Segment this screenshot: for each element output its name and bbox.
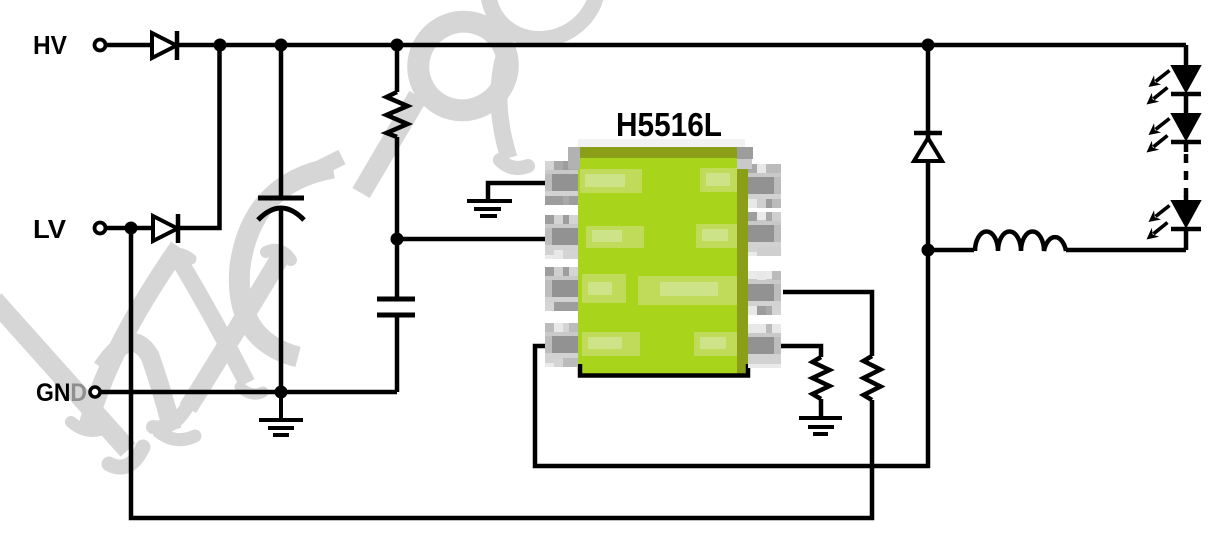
wire GND row	[100, 390, 397, 395]
IC pin 3	[545, 267, 578, 311]
diode D2	[153, 214, 178, 243]
svg-text:H5516L: H5516L	[616, 106, 722, 143]
wire top bus	[106, 43, 1186, 48]
IC pin 4	[545, 323, 578, 367]
terminal HV	[95, 40, 106, 51]
diode D3	[914, 133, 942, 161]
wire D3 branch	[926, 45, 931, 250]
svg-text:GND: GND	[36, 379, 87, 407]
IC pin 7	[748, 212, 781, 256]
LED arrows D4	[1147, 71, 1170, 105]
IC inner pin label blurs	[580, 168, 737, 356]
IC pin 8	[748, 164, 781, 208]
wire LED string	[1184, 45, 1189, 250]
dashed wire	[1184, 154, 1189, 198]
LED D4	[1171, 66, 1201, 94]
node top-3	[391, 39, 404, 52]
ground (pin1)	[467, 201, 512, 216]
inductor L1	[975, 232, 1066, 252]
IC U1 body	[578, 147, 748, 376]
terminal GND	[90, 387, 100, 397]
wire LV down and bottom bus	[131, 228, 872, 518]
wire pin5 to R2	[781, 346, 821, 357]
resistor R2	[813, 357, 830, 399]
LED arrows D5	[1147, 119, 1170, 153]
wire C1 branch	[279, 45, 284, 392]
node GND	[275, 386, 288, 399]
svg-text:HV: HV	[33, 30, 68, 60]
wire pin6 to R3	[783, 292, 872, 356]
IC pin 2	[545, 215, 578, 259]
wire pin4 loop	[535, 250, 928, 466]
wire inductor row	[928, 248, 1186, 253]
IC pin 6	[748, 271, 781, 315]
node LV	[125, 222, 138, 235]
wire LV row	[106, 45, 220, 228]
IC pin 5	[748, 324, 781, 368]
node top-2	[275, 39, 288, 52]
terminal LV	[95, 223, 106, 234]
LED D6	[1171, 201, 1201, 229]
IC corner mosaic tiles	[568, 139, 753, 169]
node top-4	[922, 39, 935, 52]
ground (C1 node)	[259, 392, 303, 435]
IC inner label highlights	[585, 173, 730, 349]
resistor R3	[864, 356, 881, 400]
capacitor C1	[258, 198, 304, 220]
wire pin2	[397, 237, 548, 242]
diode D1	[152, 31, 177, 60]
wire R1/C2 branch	[395, 45, 400, 392]
wire pin1 to ground	[488, 183, 548, 199]
LED D5	[1171, 114, 1201, 142]
LED arrows D6	[1147, 206, 1170, 240]
wire R2 to ground	[819, 399, 824, 417]
node SW	[922, 244, 935, 257]
IC pin 1	[545, 161, 578, 205]
ground (R2)	[799, 418, 842, 434]
node FB	[391, 233, 404, 246]
svg-text:LV: LV	[33, 214, 67, 244]
watermark	[0, 0, 617, 467]
capacitor C2	[377, 299, 415, 315]
resistor R1	[387, 92, 408, 137]
node top-1	[214, 39, 227, 52]
